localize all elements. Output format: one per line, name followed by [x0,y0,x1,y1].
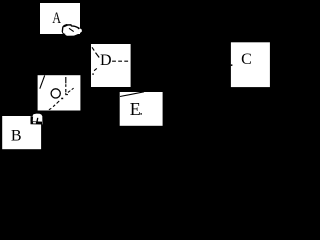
blob A diagonal stroke [69,28,74,31]
box B [2,116,41,149]
box O [38,75,81,110]
blob B bottom band white gap [33,122,36,124]
box D [91,44,131,87]
svg-text:D: D [100,52,112,69]
svg-text:B: B [11,127,22,144]
blob A hump stroke [62,25,78,32]
blob B arrowhead [30,116,33,122]
blob A top-left thick corner [64,25,68,27]
svg-text:E: E [130,99,141,119]
blob A bottom-left outline [62,32,65,35]
blob A right end blob [78,27,80,29]
D dash seg bottom-left [94,68,97,70]
C tick dot [231,64,233,66]
O vertical dashed line [65,77,67,92]
D dashed horizontal [112,60,129,62]
blob B hook stroke [36,118,38,122]
blob A (white shape) [62,24,82,35]
O dash seg below circle 1 [57,101,60,104]
box E [120,92,163,126]
svg-text:C: C [241,51,252,68]
box A [40,3,80,34]
O circle [51,89,60,98]
blob B white top [32,114,42,125]
svg-text:A: A [52,10,61,28]
O dash seg below circle 2 [53,105,55,107]
D dash dot top-left [92,47,94,50]
O small arrow foot [66,93,68,95]
O small arrow dashes [68,88,74,92]
O solid diagonal line [40,75,45,88]
E diagonal line [120,92,144,97]
box C [231,42,270,87]
D dash seg top-left [96,53,100,58]
O period dot [61,98,63,100]
blob B bottom band [31,121,43,124]
O dash seg below circle 3 [49,108,51,109]
E period dot [140,113,142,114]
D dash dot bottom-left [92,73,94,74]
